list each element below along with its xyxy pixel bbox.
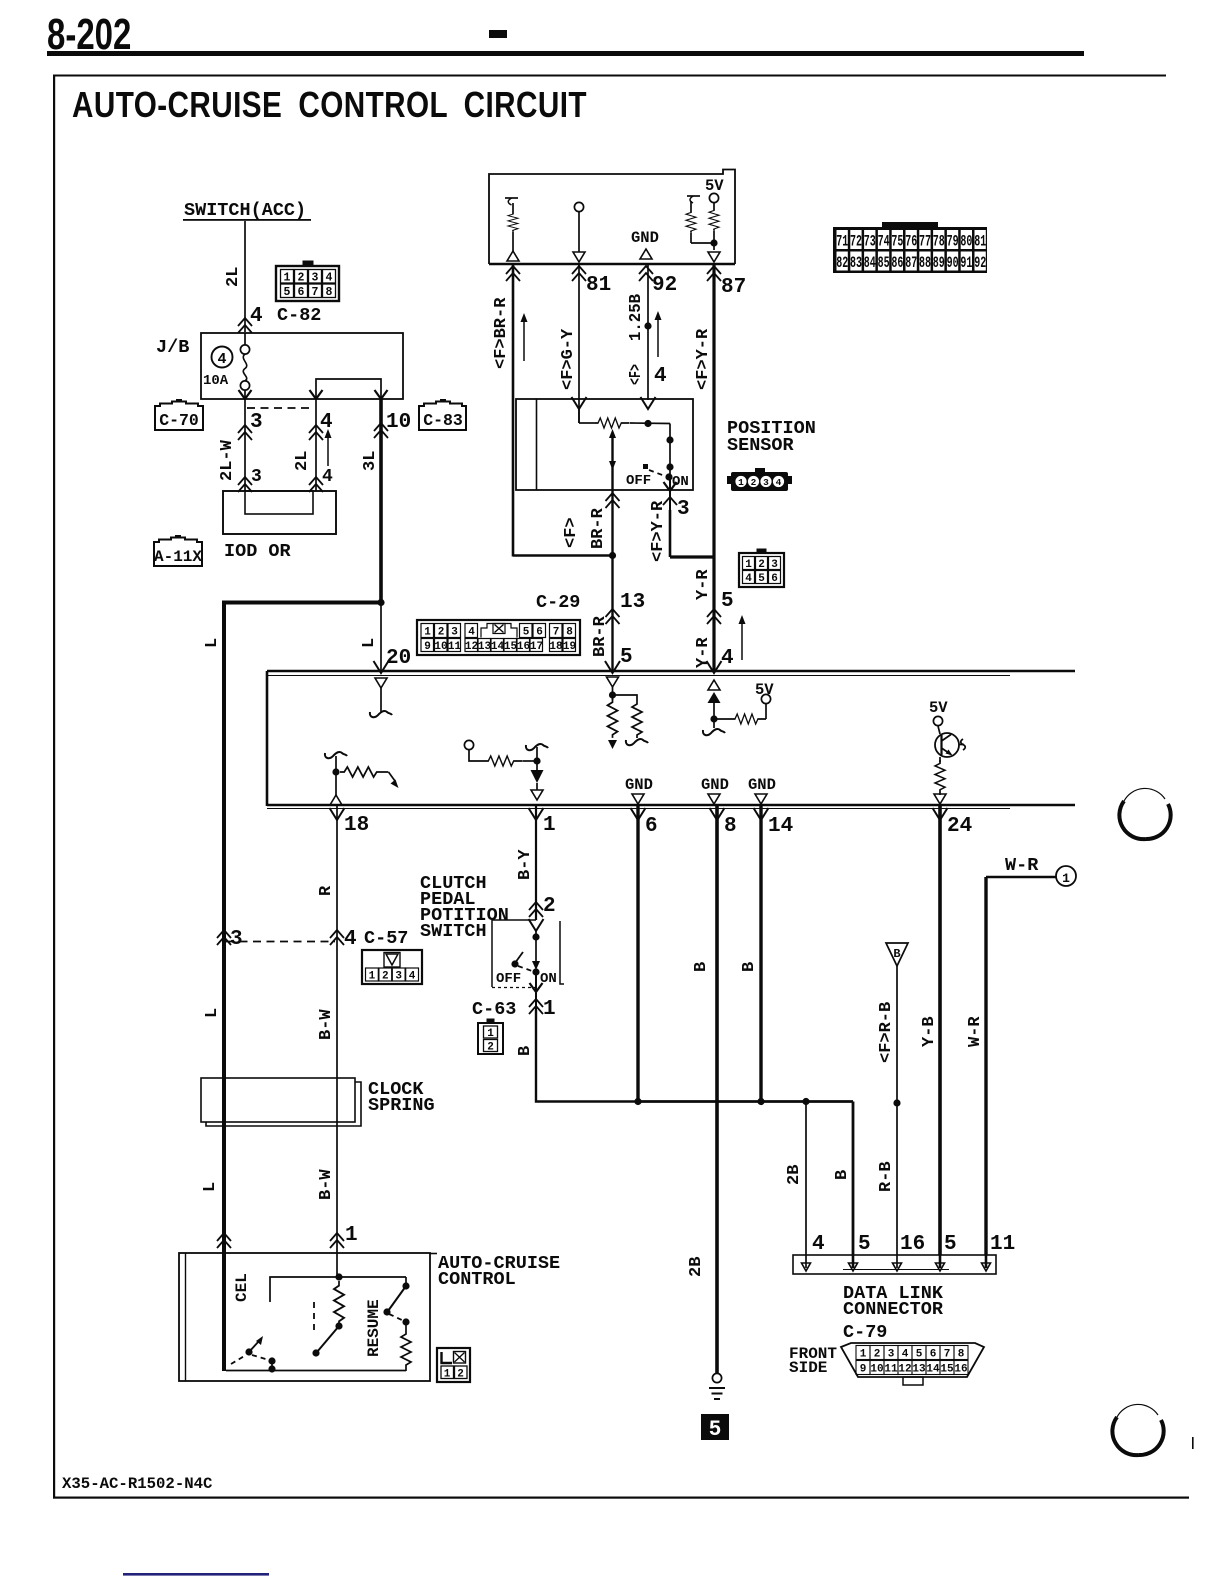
- svg-text:10: 10: [386, 411, 411, 434]
- svg-text:90: 90: [947, 254, 959, 272]
- wire label <F>BR-R: [492, 297, 511, 369]
- svg-text:IOD OR: IOD OR: [224, 541, 292, 562]
- ECU upper box: [489, 170, 735, 265]
- ECU main box top edge: [267, 671, 1075, 676]
- svg-text:B-Y: B-Y: [516, 849, 535, 880]
- entry arrow ECU pin 5: [605, 661, 620, 673]
- svg-text:2: 2: [487, 1042, 494, 1054]
- svg-text:L: L: [201, 1182, 220, 1192]
- svg-text:85: 85: [878, 254, 890, 272]
- wire label CEL: [233, 1273, 251, 1302]
- svg-text:5: 5: [721, 590, 734, 613]
- svg-text:1: 1: [860, 1349, 867, 1361]
- ECU pin 1 below: [529, 805, 556, 920]
- svg-text:89: 89: [933, 254, 945, 272]
- svg-text:W-R: W-R: [966, 1016, 985, 1047]
- crossing arrow below pin 81: [572, 266, 586, 281]
- svg-text:4: 4: [468, 627, 475, 639]
- junction block J/B box: [201, 333, 403, 399]
- pin 2 clutch switch: [529, 895, 556, 918]
- GND label pin6: [625, 776, 653, 804]
- ECU pin1 internal diode branch: [464, 740, 548, 800]
- potentiometer wiper arrow: [609, 429, 616, 490]
- svg-text:OFF: OFF: [626, 473, 651, 489]
- wire label R-B: [877, 1161, 896, 1192]
- junction block J/B label: [156, 337, 189, 358]
- svg-text:<F>G-Y: <F>G-Y: [559, 328, 578, 390]
- svg-text:SWITCH: SWITCH: [420, 921, 487, 942]
- wire label BR-R lower: [591, 615, 610, 657]
- svg-text:8: 8: [958, 1349, 965, 1361]
- wire R-B from diode to DLC: [896, 966, 898, 1255]
- svg-text:12: 12: [465, 641, 478, 653]
- svg-text:SIDE: SIDE: [789, 1359, 827, 1377]
- J/B exit arrow pin 4: [310, 390, 323, 399]
- wire label 2B bottom: [687, 1257, 706, 1277]
- svg-text:5V: 5V: [929, 699, 948, 717]
- wire label <F> BR-R two-line: [562, 507, 608, 549]
- svg-text:C-82: C-82: [277, 305, 321, 326]
- wire label B-W upper: [317, 1009, 336, 1040]
- DLC entry arrow pin16: [893, 1255, 902, 1271]
- svg-text:1: 1: [284, 272, 291, 285]
- wire 3L thick from J/B pin10: [379, 399, 383, 603]
- svg-text:72: 72: [850, 233, 862, 251]
- wire label Y-R below C29: [694, 637, 713, 668]
- entry arrow into position sensor G-Y: [572, 397, 587, 409]
- junction node at 3L/L: [377, 599, 384, 606]
- punch hole upper right: [1119, 788, 1170, 839]
- C-29 crossing arrows BR-R: [606, 609, 620, 624]
- svg-text:C-63: C-63: [472, 999, 516, 1020]
- AUTO-CRUISE CONTROL box: [179, 1253, 430, 1381]
- position sensor inline connector icon (1234 circles): [727, 468, 792, 491]
- svg-text:OFF: OFF: [496, 971, 521, 987]
- svg-text:4: 4: [776, 477, 782, 488]
- svg-text:1: 1: [543, 814, 556, 837]
- svg-text:11: 11: [990, 1233, 1015, 1256]
- wire label <F>G-Y: [559, 328, 578, 390]
- svg-text:2L: 2L: [224, 267, 243, 287]
- svg-text:Y-R: Y-R: [694, 569, 713, 600]
- svg-text:2B: 2B: [785, 1165, 804, 1185]
- wire label 2B: [785, 1165, 804, 1185]
- connector C-70 icon: [155, 399, 203, 430]
- svg-text:16: 16: [954, 1364, 967, 1376]
- svg-text:4: 4: [745, 573, 752, 585]
- wire 2L from SWITCH(ACC) to J/B pin 4: [244, 221, 246, 332]
- svg-text:SENSOR: SENSOR: [727, 435, 795, 456]
- direction arrow beside 1.25B: [655, 311, 662, 357]
- svg-text:1: 1: [745, 559, 752, 571]
- wire label Y-R above C29: [694, 569, 713, 600]
- svg-text:8: 8: [326, 286, 333, 299]
- svg-text:1: 1: [738, 477, 744, 488]
- 6-cell connector icon: [739, 549, 784, 587]
- wire L to ECU pin 20: [380, 603, 382, 672]
- svg-text:92: 92: [652, 274, 677, 297]
- punch hole lower right: [1112, 1404, 1163, 1455]
- ground rail to DLC branches: [638, 1100, 853, 1103]
- wire label <F>: [627, 364, 646, 385]
- pin triangle 5V 87: [708, 252, 720, 262]
- position sensor potentiometer: [579, 408, 670, 428]
- svg-text:24: 24: [947, 815, 972, 838]
- ECU pin24 internal transistor: [929, 699, 965, 804]
- DLC entry arrow pin5: [849, 1255, 858, 1271]
- svg-text:BR-R: BR-R: [591, 615, 610, 657]
- wire F BR-R from upper box: [512, 264, 515, 557]
- svg-text:2L-W: 2L-W: [218, 439, 237, 481]
- svg-text:<F>: <F>: [627, 364, 646, 385]
- 24-pin connector icon 71-92: [833, 222, 987, 273]
- svg-text:X35-AC-R1502-N4C: X35-AC-R1502-N4C: [62, 1475, 213, 1493]
- svg-text:83: 83: [850, 254, 862, 272]
- svg-text:GND: GND: [625, 776, 653, 794]
- DLC entry arrow pin4: [802, 1255, 811, 1271]
- svg-text:4: 4: [721, 647, 734, 670]
- wire label <F>Y-R: [694, 328, 713, 390]
- entry arrows into cruise box L wire: [217, 1233, 231, 1248]
- wire B branch down: [852, 1102, 855, 1256]
- svg-text:Y-B: Y-B: [920, 1016, 939, 1047]
- diagram frame bottom border: [53, 1497, 1189, 1499]
- ECU pin18 internal resistor network: [325, 752, 399, 805]
- svg-text:2: 2: [382, 971, 389, 983]
- wire label B-Y: [516, 849, 535, 880]
- svg-text:8: 8: [566, 627, 573, 639]
- svg-text:B-W: B-W: [317, 1169, 336, 1200]
- svg-text:2: 2: [751, 477, 757, 488]
- svg-text:4: 4: [217, 351, 226, 368]
- wire F G-Y down to position sensor: [578, 264, 580, 423]
- svg-text:3: 3: [677, 498, 690, 521]
- svg-text:CEL: CEL: [233, 1273, 251, 1302]
- wire BR-R to ECU pin 5: [611, 609, 613, 671]
- internal 5V pullup pair: [686, 177, 724, 250]
- svg-text:RESUME: RESUME: [365, 1299, 383, 1357]
- svg-text:5: 5: [858, 1233, 871, 1256]
- svg-text:6: 6: [298, 286, 305, 299]
- svg-text:16: 16: [517, 641, 530, 653]
- wire label <F> Y-R column: [649, 500, 668, 562]
- wire label B pin8: [692, 962, 711, 972]
- ECU pin 24 below: [933, 805, 973, 1255]
- svg-text:5: 5: [620, 646, 633, 669]
- svg-text:9: 9: [424, 641, 431, 653]
- crossing arrow below pin 87: [707, 266, 721, 281]
- connector C-82 icon: [276, 261, 339, 301]
- CLUTCH PEDAL POTITION SWITCH label: [420, 873, 509, 942]
- svg-text:2: 2: [758, 559, 765, 571]
- svg-text:5: 5: [944, 1233, 957, 1256]
- wire B-W from C-57 to cruise box: [336, 942, 338, 1253]
- svg-text:82: 82: [836, 254, 848, 272]
- position sensor switch wire elbow to Y-R: [670, 510, 714, 557]
- label pointer tick: [430, 1253, 437, 1255]
- pin triangle BR-R: [507, 251, 519, 261]
- svg-text:5: 5: [523, 627, 530, 639]
- svg-text:16: 16: [900, 1233, 925, 1256]
- crossing arrows on 2L-W: [238, 425, 252, 440]
- wire 2B branch down: [805, 1102, 807, 1256]
- pin triangle G-Y: [573, 252, 585, 262]
- crossing arrows wiper exit: [606, 493, 620, 508]
- wire label B pin14: [740, 962, 759, 972]
- svg-text:5: 5: [709, 1417, 721, 1440]
- svg-text:14: 14: [926, 1364, 940, 1376]
- svg-text:5: 5: [758, 573, 765, 585]
- diode symbol B triangle: [886, 943, 908, 966]
- svg-text:77: 77: [919, 233, 931, 251]
- svg-text:13: 13: [478, 641, 492, 653]
- DATA LINK CONNECTOR label: [843, 1283, 944, 1320]
- position sensor box: [516, 399, 693, 490]
- crossing arrow below pin 513: [506, 266, 520, 281]
- svg-text:4: 4: [326, 272, 333, 285]
- svg-text:C-29: C-29: [536, 592, 580, 613]
- fuse 4 10A inside J/B: [203, 333, 250, 399]
- svg-text:L: L: [360, 638, 379, 648]
- pin triangle GND 92: [640, 249, 652, 259]
- DLC entry arrow pin5b: [936, 1255, 945, 1271]
- W-R pigtail to circle 1: [986, 855, 1076, 886]
- dashed link under J/B pins 3-4: [247, 407, 314, 409]
- wire label L lower: [201, 1182, 220, 1192]
- svg-text:W-R: W-R: [1005, 855, 1039, 876]
- svg-text:R-B: R-B: [877, 1161, 896, 1192]
- wire 2L-W pin3 segment: [244, 399, 246, 491]
- svg-text:5V: 5V: [755, 681, 774, 699]
- cruise internal top rail: [270, 1253, 406, 1302]
- internal resistor to pin (BR-R): [505, 198, 518, 251]
- svg-text:91: 91: [960, 254, 972, 272]
- GND label pin8: [701, 776, 729, 804]
- cruise CANCEL switch: [231, 1336, 276, 1373]
- svg-text:B: B: [740, 962, 759, 972]
- svg-text:4: 4: [409, 971, 416, 983]
- svg-text:92: 92: [974, 254, 986, 272]
- J/B internal bus notch: [316, 379, 381, 399]
- pin 4 label and connector name C-82: [250, 305, 321, 328]
- splice dot on 1.25B: [644, 322, 651, 329]
- ECU pin20 internal stub: [370, 678, 392, 717]
- svg-text:76: 76: [905, 233, 917, 251]
- svg-text:2B: 2B: [687, 1257, 706, 1277]
- connector crossing C-57 on L wire: [217, 928, 243, 951]
- svg-text:4: 4: [322, 467, 333, 487]
- svg-text:2: 2: [438, 627, 445, 639]
- svg-text:13: 13: [620, 591, 645, 614]
- crossing arrows on 2L: [309, 425, 323, 440]
- svg-text:80: 80: [960, 233, 972, 251]
- svg-text:3: 3: [251, 467, 262, 487]
- svg-text:C-79: C-79: [843, 1322, 887, 1343]
- svg-text:9: 9: [860, 1364, 867, 1376]
- entry arrow into position sensor pin 4: [641, 397, 656, 409]
- svg-text:3: 3: [250, 411, 263, 434]
- connector A-11X icon: [154, 535, 202, 566]
- svg-text:1: 1: [424, 627, 431, 639]
- svg-text:20: 20: [386, 647, 411, 670]
- position sensor switch branch: [626, 424, 689, 491]
- entry arrows into cruise box B-W wire: [330, 1224, 358, 1248]
- direction arrow beside BR-R: [521, 313, 528, 361]
- FRONT SIDE label: [789, 1345, 837, 1377]
- svg-text:4: 4: [654, 365, 667, 388]
- svg-text:6: 6: [771, 573, 778, 585]
- svg-text:<F>: <F>: [562, 517, 581, 548]
- svg-text:81: 81: [974, 233, 986, 251]
- ground reference numbered box 5: [701, 1414, 729, 1440]
- junction dot pin6 wire: [634, 1098, 641, 1105]
- svg-text:<F>BR-R: <F>BR-R: [492, 297, 511, 369]
- svg-text:Y-R: Y-R: [694, 637, 713, 668]
- svg-text:1: 1: [1062, 871, 1070, 886]
- svg-text:CONTROL: CONTROL: [438, 1269, 516, 1290]
- svg-text:1: 1: [369, 971, 376, 983]
- svg-text:3: 3: [230, 928, 243, 951]
- crossing arrow below pin 92: [639, 266, 653, 281]
- svg-text:12: 12: [898, 1364, 911, 1376]
- svg-text:3L: 3L: [361, 451, 380, 471]
- svg-text:7: 7: [312, 286, 319, 299]
- svg-text:79: 79: [947, 233, 959, 251]
- svg-text:7: 7: [944, 1349, 951, 1361]
- svg-text:3: 3: [395, 971, 402, 983]
- cruise bottom rail: [226, 1370, 406, 1372]
- direction arrow beside 2L: [325, 429, 332, 466]
- ECU pin 18 below: [330, 805, 370, 942]
- crossing arrows into IOD pin3: [238, 477, 252, 492]
- svg-text:18: 18: [549, 641, 563, 653]
- svg-text:5: 5: [284, 286, 291, 299]
- svg-text:C-83: C-83: [423, 411, 463, 430]
- CLOCK SPRING box: [201, 1078, 361, 1126]
- svg-text:2L: 2L: [293, 451, 312, 471]
- wire label B branch: [833, 1170, 852, 1180]
- svg-text:2: 2: [874, 1349, 881, 1361]
- svg-text:10: 10: [870, 1364, 883, 1376]
- exit arrow position sensor pin 3: [663, 477, 677, 510]
- connector C-29 icon: [417, 620, 580, 655]
- svg-text:A-11X: A-11X: [154, 548, 202, 566]
- svg-text:10: 10: [434, 641, 447, 653]
- C-29 crossing arrows Y-R: [707, 609, 721, 624]
- connector C-63 icon: [478, 1019, 503, 1054]
- svg-text:R: R: [317, 885, 336, 896]
- wire label <F>R-B: [877, 1002, 896, 1063]
- svg-text:1: 1: [444, 1369, 451, 1381]
- wire label RESUME: [365, 1299, 383, 1357]
- svg-text:4: 4: [902, 1349, 909, 1361]
- svg-text:15: 15: [504, 641, 518, 653]
- entry arrow ECU pin 4: [707, 661, 722, 673]
- svg-text:5V: 5V: [705, 177, 724, 195]
- svg-text:75: 75: [891, 233, 903, 251]
- wire label B clutch: [516, 1046, 535, 1056]
- svg-text:4: 4: [344, 928, 357, 951]
- right edge tick: [1192, 1437, 1194, 1449]
- wire W-R down to DLC: [984, 877, 987, 1255]
- svg-text:GND: GND: [701, 776, 729, 794]
- wire label L left bus: [203, 638, 222, 648]
- thick L bus rail: [222, 601, 381, 605]
- IOD OR relay box: [223, 491, 336, 534]
- ECU main box bottom edge: [267, 805, 1075, 809]
- svg-text:17: 17: [530, 641, 543, 653]
- crossing arrows into IOD pin4: [309, 477, 323, 492]
- svg-text:1: 1: [543, 998, 556, 1021]
- wire label B-W lower: [317, 1169, 336, 1200]
- svg-text:86: 86: [891, 254, 903, 272]
- thick wire L down left: [222, 603, 226, 1372]
- svg-text:88: 88: [919, 254, 931, 272]
- svg-text:87: 87: [905, 254, 917, 272]
- wire label 2L lower: [293, 451, 312, 471]
- ECU upper box bottom edge: [489, 263, 735, 266]
- wire label L pin20: [360, 638, 379, 648]
- clutch pedal switch box: [492, 920, 564, 988]
- svg-text:<F>R-B: <F>R-B: [877, 1002, 896, 1063]
- svg-text:B-W: B-W: [317, 1009, 336, 1040]
- wire label 2L: [224, 267, 243, 287]
- svg-text:19: 19: [563, 641, 576, 653]
- connector C-57 icon: [362, 950, 422, 984]
- svg-text:B: B: [516, 1046, 535, 1056]
- svg-text:87: 87: [721, 276, 746, 299]
- svg-text:B: B: [833, 1170, 852, 1180]
- ECU pin 8 below: [710, 805, 737, 1374]
- svg-text:3: 3: [451, 627, 458, 639]
- POSITION SENSOR label: [727, 418, 816, 456]
- GND label pin14: [748, 776, 776, 804]
- svg-text:1: 1: [487, 1028, 494, 1040]
- DLC entry arrow pin11: [982, 1255, 991, 1271]
- DATA LINK CONNECTOR box: [793, 1255, 996, 1274]
- svg-text:3: 3: [771, 559, 778, 571]
- svg-text:BR-R: BR-R: [589, 507, 608, 549]
- wire 2L pin4 segment: [315, 399, 317, 491]
- wire label L mid: [203, 1008, 222, 1018]
- connector crossing C-57 on R wire: [330, 928, 408, 951]
- svg-text:CONNECTOR: CONNECTOR: [843, 1299, 944, 1320]
- wire label 2L-W: [218, 439, 237, 481]
- cruise SET resistor and switch arm: [312, 1281, 344, 1357]
- cruise RESUME switch and resistor: [383, 1277, 411, 1371]
- splice dot on R-B: [893, 1099, 900, 1106]
- wiper wire elbow to BR-R: [513, 490, 616, 609]
- svg-text:ON: ON: [672, 474, 689, 490]
- svg-text:7: 7: [553, 627, 560, 639]
- svg-text:74: 74: [878, 233, 890, 251]
- svg-text:11: 11: [884, 1364, 898, 1376]
- ground symbol B wire: [709, 1373, 725, 1399]
- svg-text:84: 84: [864, 254, 876, 272]
- svg-text:10A: 10A: [203, 373, 229, 389]
- svg-text:5: 5: [916, 1349, 923, 1361]
- svg-text:GND: GND: [748, 776, 776, 794]
- entry arrow ECU pin 20: [374, 661, 389, 673]
- wire label W-R vertical: [966, 1016, 985, 1047]
- svg-text:<F>Y-R: <F>Y-R: [649, 500, 668, 562]
- direction arrow beside Y-R: [739, 615, 746, 660]
- AUTO-CRUISE CONTROL label: [438, 1253, 560, 1290]
- svg-text:2: 2: [298, 272, 305, 285]
- header dash: [489, 30, 507, 38]
- svg-text:6: 6: [930, 1349, 937, 1361]
- wire label 1.25B: [627, 294, 646, 341]
